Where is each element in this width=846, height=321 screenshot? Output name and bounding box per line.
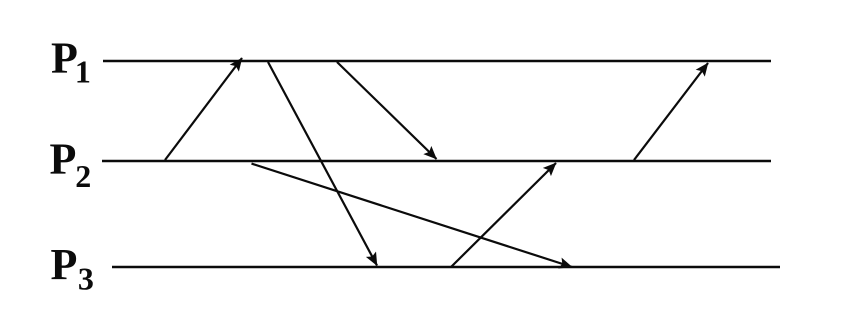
- process line P1: [103, 60, 771, 63]
- message arrow m4: P2 to P3: [252, 164, 573, 267]
- process line P2: [102, 160, 771, 163]
- message arrow m3: P1 to P2: [337, 62, 437, 159]
- message arrow m1: P2 to P1: [165, 58, 242, 160]
- process line P3: [112, 266, 780, 269]
- svg-text:P2: P2: [50, 135, 92, 194]
- svg-text:P1: P1: [51, 34, 91, 90]
- svg-text:P3: P3: [51, 240, 94, 297]
- message arrow m5: P3 to P2: [451, 163, 556, 267]
- message arrow m2: P1 to P3: [268, 62, 377, 266]
- message arrow m6: P2 to P1: [634, 63, 708, 160]
